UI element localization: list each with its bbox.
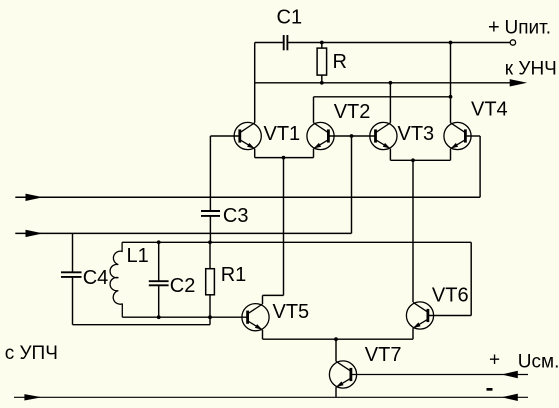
svg-text:VT1: VT1 — [264, 123, 301, 145]
resistor R1 — [206, 269, 215, 295]
transistor VT7 — [329, 361, 356, 388]
wire VT7 base to Usm — [351, 374, 528, 376]
wire C4 bottom link — [73, 324, 211, 326]
node top rail / VT4 riser junction — [449, 41, 453, 45]
arrow input 2 — [26, 230, 44, 237]
label + Upit — [488, 17, 551, 39]
wire input 1 — [15, 196, 480, 198]
resistor R — [317, 48, 327, 75]
svg-text:VT4: VT4 — [471, 98, 508, 120]
wire VT5-VT6 emitter link — [263, 338, 414, 340]
wire VT4 emitter drop — [450, 149, 452, 161]
node VT3-VT4 emitter junction — [411, 158, 415, 162]
label minus — [487, 388, 493, 391]
wire tank top rail — [122, 241, 471, 243]
wire VT1 emitter drop — [254, 149, 256, 158]
wire C2 bottom lead — [158, 285, 160, 317]
node C2 top junction — [157, 240, 161, 244]
wire output rail to UNCh — [255, 82, 511, 84]
svg-text:C2: C2 — [170, 275, 196, 297]
svg-text:R: R — [333, 51, 347, 73]
node R bottom junction — [320, 81, 324, 85]
wire VT1 collector riser — [254, 43, 256, 123]
wire VT3-VT4 emitter link — [390, 159, 450, 161]
wire R1 top lead — [209, 242, 211, 268]
wire R1 bottom lead — [209, 295, 211, 317]
wire R top lead — [321, 43, 323, 49]
svg-text:C1: C1 — [277, 6, 303, 28]
node emitter link junction — [282, 156, 286, 160]
svg-text:VT5: VT5 — [273, 301, 310, 323]
wire C4 bottom lead — [72, 277, 74, 325]
wire VT7 collector lead — [335, 339, 337, 361]
svg-text:L1: L1 — [127, 245, 149, 267]
wire tank rail riser to VT6 base — [470, 242, 472, 315]
svg-text:Uсм.: Uсм. — [518, 352, 559, 373]
label + Usm — [489, 349, 559, 372]
arrow bottom input — [24, 394, 42, 400]
arrow Usm minus — [502, 394, 518, 401]
svg-text:+: + — [488, 17, 500, 39]
capacitor C3 — [201, 211, 220, 216]
wire VT2 collector riser — [313, 97, 315, 123]
wire VT1-VT2 emitter link — [255, 157, 314, 159]
node C2 bottom junction — [157, 315, 161, 319]
svg-text:R1: R1 — [221, 264, 247, 286]
wire VT5 collector lead — [262, 295, 264, 304]
arrow input 1 — [26, 194, 44, 201]
svg-text:VT2: VT2 — [334, 101, 371, 123]
wire C3 bottom lead — [209, 216, 211, 242]
wire jog to VT5 collector — [263, 294, 284, 296]
wire input2 riser to bases — [351, 136, 353, 233]
wire tank bottom to VT5 base — [122, 316, 247, 318]
wire C2 top lead — [158, 242, 160, 281]
svg-text:VT3: VT3 — [398, 123, 435, 145]
wire emitter link riser down — [283, 158, 285, 296]
wire VT7 emitter drop — [335, 387, 337, 397]
svg-text:с УПЧ: с УПЧ — [5, 343, 58, 364]
wire VT4 base lead — [465, 135, 480, 137]
wire VT2 emitter drop — [313, 149, 315, 158]
wire bottom minus rail — [14, 396, 528, 398]
wire to VT6 collector — [412, 160, 414, 302]
wire VT1 base lead — [210, 135, 239, 137]
transistor VT3 — [370, 122, 397, 149]
wire input1 riser to VT4 base — [479, 136, 481, 197]
transistor VT2 — [307, 122, 334, 149]
transistor VT4 — [444, 122, 471, 149]
wire top rail left segment — [255, 42, 284, 44]
capacitor C4 — [61, 272, 82, 277]
transistor VT6 — [406, 302, 433, 329]
svg-text:к УНЧ: к УНЧ — [505, 58, 557, 79]
svg-text:C4: C4 — [83, 267, 109, 289]
wire VT5 emitter drop — [262, 330, 264, 339]
capacitor C1 — [284, 35, 288, 50]
node R1 top junction — [208, 240, 212, 244]
transistor VT5 — [242, 304, 269, 331]
arrow to UNCh — [510, 79, 528, 86]
node R top junction — [320, 41, 324, 45]
svg-text:VT7: VT7 — [365, 344, 402, 366]
arrow Usm plus — [502, 371, 518, 378]
wire VT2-VT3 base link — [328, 135, 375, 137]
wire VT3 emitter drop — [389, 149, 391, 161]
wire input 2 — [15, 232, 351, 234]
node wire3 / VT4 riser junction — [449, 95, 453, 99]
wire C4 top lead — [72, 233, 74, 272]
node VT3 collector / output rail junction — [389, 81, 393, 85]
svg-text:VT6: VT6 — [432, 285, 469, 307]
wire VT4 collector riser — [450, 43, 452, 123]
wire VT2 collector to VT4 riser — [314, 96, 451, 98]
capacitor C2 — [149, 281, 169, 285]
node base link junction — [350, 134, 354, 138]
transistor VT1 — [234, 122, 261, 149]
svg-text:+: + — [489, 349, 500, 370]
svg-text:C3: C3 — [223, 205, 249, 227]
wire VT6 emitter drop — [412, 328, 414, 339]
wire VT3 collector riser — [389, 83, 391, 123]
node VT7 collector junction — [334, 337, 338, 341]
wire R bottom lead — [321, 75, 323, 83]
inductor L1 — [110, 242, 122, 317]
wire top rail right segment — [287, 42, 510, 44]
wire C4 link riser — [209, 317, 211, 325]
wire VT1 base riser to C3 — [209, 136, 211, 211]
svg-text:Uпит.: Uпит. — [505, 18, 552, 39]
terminal +Upit — [510, 40, 515, 45]
wire VT6 base lead — [428, 315, 471, 317]
node R1 bottom junction — [208, 315, 212, 319]
